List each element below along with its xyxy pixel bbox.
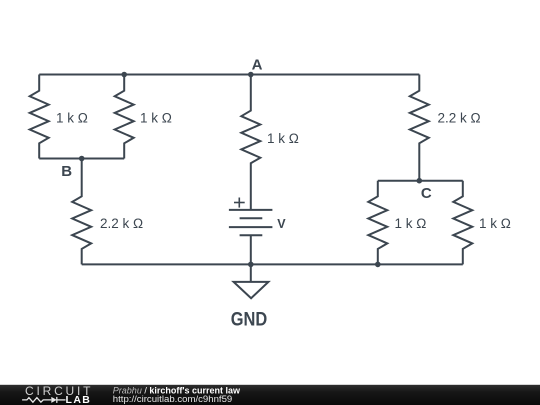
svg-text:LAB: LAB bbox=[66, 394, 92, 405]
svg-text:1 k Ω: 1 k Ω bbox=[395, 216, 427, 231]
svg-text:V: V bbox=[277, 217, 286, 231]
svg-text:http://circuitlab.com/c9hnf59: http://circuitlab.com/c9hnf59 bbox=[113, 394, 232, 405]
svg-text:1 k Ω: 1 k Ω bbox=[56, 111, 88, 126]
svg-text:2.2 k Ω: 2.2 k Ω bbox=[438, 111, 481, 126]
svg-text:GND: GND bbox=[231, 310, 268, 331]
svg-text:2.2 k Ω: 2.2 k Ω bbox=[100, 216, 143, 231]
svg-text:1 k Ω: 1 k Ω bbox=[140, 111, 172, 126]
svg-text:B: B bbox=[61, 163, 72, 180]
svg-text:C: C bbox=[421, 185, 432, 202]
svg-text:1 k Ω: 1 k Ω bbox=[267, 131, 299, 146]
svg-text:A: A bbox=[252, 57, 263, 74]
svg-text:1 k Ω: 1 k Ω bbox=[479, 216, 511, 231]
